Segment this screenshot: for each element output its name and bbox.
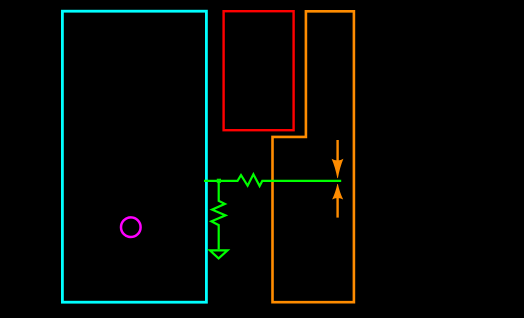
red region box (top middle region) <box>224 11 294 130</box>
dimension arrow down (orange) <box>332 140 344 178</box>
orange stepped region box (right region) <box>273 11 354 302</box>
dimension arrow up (orange) <box>332 184 343 218</box>
cyan region box (left device region) <box>62 11 206 302</box>
magenta circle marker <box>121 217 141 237</box>
wire: vertical branch with resistor R2 <box>211 181 225 249</box>
ground symbol (open triangle) <box>210 250 228 258</box>
node junction dot <box>217 179 221 183</box>
wire: horizontal net with resistor R1 <box>204 174 341 186</box>
